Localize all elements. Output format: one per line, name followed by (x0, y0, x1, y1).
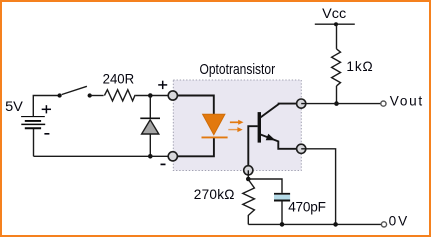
node junction dot at diode branch (148, 93, 153, 98)
node junction dot on bottom rail (148, 154, 153, 159)
light arrow lower (228, 127, 242, 132)
LED D2 cathode bar (202, 136, 228, 138)
transistor Q1 emitter arrow (266, 134, 276, 141)
wire pin to LED anode (173, 96, 214, 115)
pin base circle (244, 166, 253, 175)
light arrow upper (230, 120, 244, 125)
wire battery top to switch (33, 96, 59, 117)
node dot emitter lead on rail (333, 222, 338, 227)
capacitor C1 bottom plate (274, 200, 290, 202)
wire battery bottom to rail (33, 129, 35, 156)
wire switch to resistor (90, 95, 104, 97)
pin anode circle (168, 91, 177, 100)
node dot on Vcc bar (334, 22, 338, 26)
capacitor C1 top plate (274, 193, 290, 195)
wire emitter pin to down lead (301, 149, 335, 225)
wire bottom rail to LED pin (34, 155, 173, 157)
transistor Q1 emitter lead (260, 134, 301, 148)
battery plus mark (42, 105, 51, 113)
node dot base branch (246, 177, 251, 182)
pin collector circle (297, 99, 306, 108)
0V rail (248, 223, 381, 225)
terminal Vout circle (381, 101, 386, 106)
wire resistor to pin (135, 95, 173, 97)
Vcc rail bar (315, 23, 355, 25)
node dot capacitor on rail (280, 222, 285, 227)
transistor Q1 base lead (248, 126, 257, 170)
wire capacitor to 0V rail (281, 201, 283, 224)
svg-text:240R: 240R (103, 71, 135, 86)
capacitor C1 dielectric (274, 195, 290, 200)
svg-text:Optotransistor: Optotransistor (200, 62, 276, 78)
node dot Vout junction (334, 101, 339, 106)
resistor R1 240R (104, 90, 135, 101)
resistor R3 270k (243, 180, 255, 225)
svg-text:270kΩ: 270kΩ (194, 187, 235, 202)
wire junction down to diode (149, 96, 151, 119)
wire base branch to capacitor (248, 179, 282, 193)
switch contact dot left (57, 93, 61, 97)
diode D1 cathode bar (140, 117, 160, 119)
svg-text:Vout: Vout (390, 94, 423, 109)
plus mark at LED anode pin (158, 81, 167, 89)
LED D2 body (203, 114, 225, 134)
switch SW1 lever (62, 86, 87, 94)
pin cathode circle (168, 152, 177, 161)
wire Vcc to resistor (336, 24, 338, 49)
svg-text:Vcc: Vcc (322, 6, 346, 21)
svg-text:0V: 0V (389, 214, 408, 229)
svg-text:470pF: 470pF (288, 200, 326, 215)
wire collector pin to Vout terminal (301, 103, 381, 105)
battery minus mark (44, 133, 49, 135)
diode D1 body (142, 120, 159, 134)
battery BT1 5V (21, 117, 45, 129)
optocoupler package box U1 (173, 80, 301, 171)
resistor R2 1k (332, 49, 341, 86)
terminal 0V circle (381, 222, 386, 227)
transistor Q1 base bar (258, 112, 261, 143)
wire diode to bottom rail (149, 134, 151, 156)
wire resistor to Vout node (336, 86, 338, 104)
svg-text:5V: 5V (5, 99, 23, 114)
wire LED cathode to pin (173, 138, 214, 156)
pin emitter circle (297, 144, 306, 153)
switch contact dot right (88, 93, 92, 97)
minus mark at LED cathode pin (161, 163, 166, 165)
svg-text:1kΩ: 1kΩ (346, 59, 372, 74)
transistor Q1 collector lead (260, 104, 301, 118)
wire base pin down (247, 170, 249, 179)
